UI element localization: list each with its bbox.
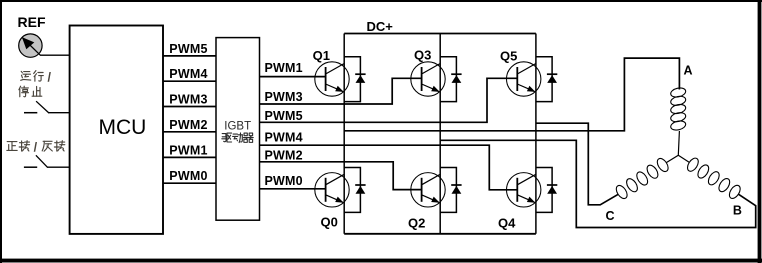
wire PWM1 driver to Q1 base	[260, 76, 326, 78]
svg-text:B: B	[733, 203, 742, 217]
svg-text:DC+: DC+	[367, 19, 394, 34]
label A	[684, 64, 693, 78]
label PWM4 (left)	[169, 67, 207, 81]
svg-text:PWM1: PWM1	[169, 143, 207, 157]
label PWM1 (left)	[169, 143, 207, 157]
wire PWM5 MCU to driver	[163, 55, 216, 57]
label PWM1 (right)	[265, 61, 303, 75]
diode across Q1	[344, 57, 365, 102]
svg-text:A: A	[684, 64, 693, 78]
label PWM2 (right)	[265, 148, 303, 162]
wire PWM5 driver to Q5 base	[260, 78, 518, 122]
wire phase A (Q1 leg to winding A)	[344, 58, 679, 131]
wire PWM3 MCU to driver	[163, 106, 216, 108]
wire half-bridge rail B leg	[439, 34, 441, 234]
IGBT driver U2	[216, 38, 260, 221]
wire PWM2 driver to Q2 base	[260, 162, 422, 190]
svg-text:Q0: Q0	[321, 215, 338, 230]
svg-text:C: C	[606, 209, 615, 223]
svg-text:Q3: Q3	[414, 48, 431, 63]
inductor winding A	[670, 87, 687, 132]
svg-text:Q5: Q5	[500, 49, 517, 64]
label Q0	[321, 215, 338, 230]
wire PWM0 MCU to driver	[163, 182, 216, 184]
diode across Q0	[344, 168, 365, 213]
svg-text:PWM0: PWM0	[265, 174, 303, 188]
svg-text:PWM4: PWM4	[169, 67, 207, 81]
svg-text:PWM4: PWM4	[265, 131, 303, 145]
wire PWM2 MCU to driver	[163, 131, 216, 133]
wire PWM1 MCU to driver	[163, 156, 216, 158]
svg-text:Q1: Q1	[313, 48, 330, 63]
diode across Q5	[536, 57, 557, 102]
svg-text:PWM3: PWM3	[265, 90, 303, 104]
label PWM3 (right)	[265, 90, 303, 104]
label PWM5 (left)	[169, 42, 207, 56]
switch S2 forward/reverse	[24, 155, 48, 167]
label C	[606, 209, 615, 223]
svg-text:IGBT: IGBT	[224, 120, 251, 132]
transistor Q3	[411, 62, 445, 96]
wire PWM4 driver to Q4 base	[260, 145, 518, 190]
label switch S2 forward/reverse	[7, 141, 65, 155]
inductor winding C	[614, 157, 670, 201]
label Q1	[313, 48, 330, 63]
wire phase C (Q5 leg to winding C)	[536, 123, 619, 205]
inductor winding B	[685, 156, 742, 200]
MCU U1	[70, 26, 163, 234]
label switch S1 run/stop	[19, 71, 52, 97]
svg-text:PWM2: PWM2	[265, 148, 303, 162]
wire phase B (Q3 leg to winding B)	[440, 140, 756, 227]
svg-text:PWM1: PWM1	[265, 61, 303, 75]
label PWM0 (left)	[169, 169, 207, 183]
svg-text:PWM2: PWM2	[169, 118, 207, 132]
svg-text:REF: REF	[18, 14, 46, 30]
svg-text:Q2: Q2	[408, 216, 425, 231]
svg-text:/: /	[34, 141, 38, 155]
label DC+	[367, 19, 394, 34]
diode across Q4	[536, 168, 557, 213]
label Q2	[408, 216, 425, 231]
transistor Q0	[315, 173, 349, 207]
wire REF to MCU	[40, 54, 70, 56]
potentiometer REF	[19, 34, 42, 57]
label PWM3 (left)	[169, 93, 207, 107]
label PWM4 (right)	[265, 131, 303, 145]
svg-text:MCU: MCU	[99, 116, 147, 139]
switch S1 run/stop	[24, 101, 49, 113]
label PWM2 (left)	[169, 118, 207, 132]
svg-text:PWM0: PWM0	[169, 169, 207, 183]
motor star point	[667, 131, 690, 163]
label REF	[18, 14, 46, 30]
label Q4	[498, 216, 516, 231]
label Q3	[414, 48, 431, 63]
transistor Q1	[315, 62, 349, 96]
wire half-bridge rail C leg	[535, 34, 537, 234]
wire PWM4 MCU to driver	[163, 80, 216, 82]
label PWM5 (right)	[265, 109, 303, 123]
diode across Q3	[440, 57, 461, 102]
transistor Q2	[411, 173, 445, 207]
label B	[733, 203, 742, 217]
svg-text:PWM5: PWM5	[169, 42, 207, 56]
svg-text:/: /	[48, 71, 52, 85]
transistor Q4	[507, 173, 541, 207]
wire S2 to MCU	[47, 166, 70, 168]
label Q5	[500, 49, 517, 64]
diode across Q2	[440, 168, 461, 213]
wire DC+ rail	[344, 33, 536, 35]
svg-text:PWM5: PWM5	[265, 109, 303, 123]
svg-text:Q4: Q4	[498, 216, 516, 231]
transistor Q5	[507, 62, 541, 96]
label PWM0 (right)	[265, 174, 303, 188]
wire DC- bottom rail	[344, 233, 536, 235]
svg-text:PWM3: PWM3	[169, 93, 207, 107]
wire PWM3 driver to Q3 base	[260, 78, 422, 104]
wire half-bridge rail A leg	[343, 34, 345, 234]
wire S1 to MCU	[48, 112, 70, 114]
wire PWM0 driver to Q0 base	[260, 188, 326, 190]
